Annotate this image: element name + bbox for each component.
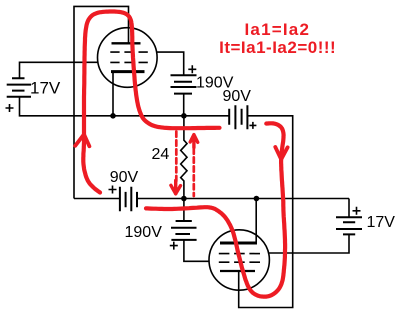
svg-text:17V: 17V (367, 214, 396, 231)
plus sign B2 (188, 65, 196, 73)
svg-text:190V: 190V (125, 224, 163, 241)
plus sign B3 (249, 122, 256, 129)
wire middle rail right part (137, 198, 349, 200)
wire 17V left loop grid wire (20, 62, 98, 78)
svg-text:17V: 17V (30, 78, 61, 97)
battery B5 190V bottom plates (171, 221, 197, 240)
tube V1 grid g2 (dashed) (110, 51, 149, 53)
red current loop Ia1 stroke (83, 12, 219, 193)
node dot 190V/resistor top (181, 113, 187, 119)
battery B4 90V left plates (120, 187, 137, 212)
red dashed arrow down head (171, 181, 181, 194)
svg-text:90V: 90V (223, 88, 252, 105)
wire 17V right bottom to V2 (269, 234, 349, 253)
wire middle rail left part (74, 198, 120, 200)
red dashed arrow down (It left) (175, 132, 178, 182)
resistor R 24ohm zigzag (181, 116, 187, 199)
wire B5 to V2 grid (184, 240, 209, 261)
wire 190V bottom battery top lead (183, 199, 185, 222)
wire V1 cathode lead (112, 72, 114, 116)
wire 17V left bottom + cathode rail (20, 97, 230, 116)
battery B1 17V left plates (7, 78, 31, 97)
red arrowhead Ia1 (up) (75, 134, 89, 146)
tube V1 plate (112, 42, 141, 44)
wire 190V bottom lead (183, 94, 185, 116)
svg-text:Ia1=Ia2: Ia1=Ia2 (245, 20, 311, 39)
wire 17V right top lead (348, 199, 350, 218)
svg-text:24: 24 (152, 146, 170, 163)
tube V2 cathode (220, 242, 257, 245)
wire anode loop tube V2 (right edge + bottom rail + anode lead) (239, 116, 293, 308)
node dot V1 cathode (110, 113, 116, 119)
wire V2 cathode lead (255, 199, 257, 244)
tube V1 envelope (98, 28, 158, 88)
battery B3 90V top plates (229, 105, 247, 129)
tube V2 grid g2 (dashed) (219, 253, 261, 255)
red dashed arrow up head (190, 135, 198, 148)
plus sign B1 (6, 104, 14, 112)
tube V2 grid g1 (dashed) (219, 261, 261, 263)
tube V1 grid g1 (dashed) (110, 61, 149, 63)
red dashed arrow up (It right) (192, 149, 195, 197)
wire anode loop tube V1 (top rail + left edge + anode lead) (74, 6, 129, 198)
plus sign B5 (170, 242, 178, 250)
node dot V2 cathode (254, 196, 260, 202)
red current loop Ia2 stroke (146, 123, 285, 296)
svg-text:It=Ia1-Ia2=0!!!: It=Ia1-Ia2=0!!! (219, 38, 336, 57)
battery B2 190V top plates (171, 75, 197, 93)
wire V1 g2 to 190V battery (157, 52, 184, 75)
tube V2 envelope (209, 230, 269, 290)
battery B6 17V right plates (336, 217, 362, 234)
red arrowhead Ia2 (down) (275, 147, 287, 159)
svg-text:90V: 90V (110, 169, 139, 186)
plus sign B4 (109, 186, 117, 194)
node dot resistor bottom (181, 196, 187, 202)
tube V1 cathode (111, 70, 145, 73)
plus sign B6 (353, 207, 361, 215)
tube V2 plate (220, 270, 255, 272)
